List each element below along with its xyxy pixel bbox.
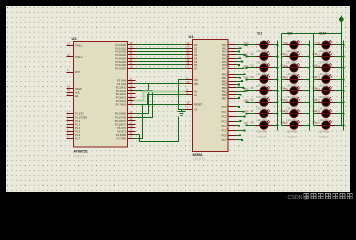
wire LED row 1 col 3 cathode to rail <box>334 44 344 46</box>
LED D15 <box>281 110 303 122</box>
wire LED row 2 col 1 cathode to rail <box>272 56 278 58</box>
svg-text:P1.0/T2: P1.0/T2 <box>75 113 84 116</box>
junction col 3 row 8 <box>343 124 345 126</box>
svg-text:XTAL2: XTAL2 <box>75 56 83 59</box>
wire stub PA0 with net dot <box>236 44 245 46</box>
wire cathode rail column 2 <box>309 41 311 131</box>
wire stub PB1 with net dot <box>236 77 241 79</box>
junction col 3 row 4 <box>343 78 345 80</box>
LED D19 <box>313 64 335 77</box>
svg-text:PA7: PA7 <box>222 67 227 70</box>
junction col 2 row 1 <box>308 44 310 46</box>
wire drop rail col 2 feed row 1 <box>282 44 286 46</box>
wire LED row 6 col 1 feed from net PA5 <box>247 102 256 104</box>
wire stub PC4 with net dot <box>236 125 239 127</box>
junction col 1 row 5 <box>277 90 279 92</box>
wire U1 RD to CS tie <box>179 80 186 110</box>
svg-text:EA: EA <box>75 95 79 98</box>
svg-text:D10: D10 <box>281 54 286 56</box>
svg-text:P3.7/RD: P3.7/RD <box>117 138 127 141</box>
junction col 3 row 5 <box>343 90 345 92</box>
svg-text:CS: CS <box>194 109 198 112</box>
wire stub PC0 with net dot <box>236 106 239 108</box>
svg-text:D9: D9 <box>287 31 292 35</box>
schematic sheet background <box>6 6 350 192</box>
junction col 1 row 4 <box>277 78 279 80</box>
wire LED row 8 col 1 feed from net PA7 <box>247 125 256 127</box>
svg-text:PA1: PA1 <box>244 53 249 56</box>
U1 right pins with pin numbers <box>229 44 236 46</box>
wire LED row 4 col 2 cathode to rail <box>302 79 310 81</box>
svg-text:P3.3/INT1: P3.3/INT1 <box>115 123 127 126</box>
svg-text:CSDN @: CSDN @ <box>288 195 309 200</box>
wire drop rail col 3 feed row 4 <box>314 79 318 81</box>
U1 left pins with pin numbers <box>186 44 193 46</box>
svg-text:P3.4/T0: P3.4/T0 <box>117 127 126 130</box>
wire data bus P0.1 to D1 <box>136 48 186 50</box>
wire power drop rail column 1 <box>281 34 283 126</box>
wire drop rail col 2 feed row 7 <box>282 113 286 115</box>
wire LED row 8 col 1 cathode to rail <box>272 125 278 127</box>
svg-text:PA0: PA0 <box>244 42 249 45</box>
svg-text:P1.3: P1.3 <box>75 123 81 126</box>
wire LED row 3 col 1 feed from net PA2 <box>247 67 256 69</box>
LED D20 <box>313 75 335 88</box>
U2 right pins with pin numbers <box>128 44 136 46</box>
wire stub PB2 with net dot <box>236 81 243 83</box>
svg-text:D17: D17 <box>319 31 326 35</box>
wire LED row 1 col 2 cathode to rail <box>302 44 310 46</box>
wire data bus P0.7 to D7 <box>136 68 186 70</box>
wire drop rail col 3 feed row 1 <box>314 44 318 46</box>
LED D21 <box>313 87 335 100</box>
junction col 2 row 3 <box>308 67 310 69</box>
svg-text:D1: D1 <box>257 31 262 35</box>
svg-text:D22: D22 <box>313 100 318 102</box>
wire stub PC3 with net dot <box>236 121 241 123</box>
wire data bus P0.6 to D6 <box>136 64 186 66</box>
LED D12 <box>281 75 303 88</box>
wire data bus P0.5 to D5 <box>136 61 186 63</box>
wire LED row 5 col 2 cathode to rail <box>302 90 310 92</box>
LED D14 <box>281 98 303 111</box>
junction col 1 row 1 <box>277 44 279 46</box>
wire P3.7 to U1 RESET <box>134 105 186 139</box>
svg-text:P3.2/INT0: P3.2/INT0 <box>115 120 127 123</box>
wire stub PB0 with net dot <box>236 74 245 76</box>
junction col 1 row 3 <box>277 67 279 69</box>
junction col 3 row 3 <box>343 67 345 69</box>
LED D4 <box>251 75 273 88</box>
junction col 3 row 1 <box>343 44 345 46</box>
LED D16 <box>281 121 303 134</box>
wire LED row 2 col 2 cathode to rail <box>302 56 310 58</box>
wire drop rail col 3 feed row 2 <box>314 56 318 58</box>
wire LED row 8 col 2 cathode to rail <box>302 125 310 127</box>
wire LED row 5 col 3 cathode to rail <box>334 90 344 92</box>
wire LED row 3 col 2 cathode to rail <box>302 67 310 69</box>
svg-text:D19: D19 <box>313 65 318 67</box>
wire drop rail col 2 feed row 4 <box>282 79 286 81</box>
svg-text:D15: D15 <box>281 111 286 113</box>
svg-text:P0.7/AD7: P0.7/AD7 <box>115 67 126 70</box>
wire P2.1 to U1 WR <box>134 83 186 85</box>
svg-text:P3.6/WR: P3.6/WR <box>116 134 126 137</box>
svg-text:P1.2: P1.2 <box>75 120 81 123</box>
power symbol VCC top right <box>339 16 343 34</box>
wire stub PA7 with net dot <box>236 68 244 70</box>
wire LED row 5 col 1 cathode to rail <box>272 90 278 92</box>
wire stub PC6 with net dot <box>236 135 241 137</box>
wire stub PA5 with net dot <box>236 61 243 63</box>
junction col 3 row 2 <box>343 56 345 58</box>
svg-text:P1.6: P1.6 <box>75 134 81 137</box>
wire data bus P0.4 to D4 <box>136 58 186 60</box>
LED D1 <box>256 31 273 53</box>
junction col 2 row 5 <box>308 90 310 92</box>
wire LED row 8 col 3 cathode to rail <box>334 125 344 127</box>
wire LED row 1 col 1 feed from net PA0 <box>247 44 256 46</box>
LED D5 <box>251 87 273 100</box>
LED D8 <box>251 121 273 134</box>
wire power drop rail column 2 <box>313 34 315 126</box>
junction col 2 row 8 <box>308 124 310 126</box>
wire stub PB5 with net dot <box>236 91 245 93</box>
wire P3.0 riser <box>134 84 149 114</box>
svg-text:RD: RD <box>194 79 198 82</box>
wire drop rail col 2 feed row 6 <box>282 102 286 104</box>
wire LED row 7 col 1 feed from net PA6 <box>247 113 256 115</box>
wire drop rail col 3 feed row 5 <box>314 90 318 92</box>
svg-text:D12: D12 <box>281 77 286 79</box>
LED D7 <box>251 110 273 122</box>
wire LED row 4 col 3 cathode to rail <box>334 79 344 81</box>
wire LED row 7 col 3 cathode to rail <box>334 113 344 115</box>
wire drop rail col 3 feed row 8 <box>314 125 318 127</box>
wire stub PA1 with net dot <box>236 48 241 50</box>
junction col 1 row 6 <box>277 101 279 103</box>
junction col 1 row 7 <box>277 113 279 115</box>
wire stub PB7 with net dot <box>236 98 239 100</box>
svg-text:D21: D21 <box>313 88 318 90</box>
svg-text:AT89C51: AT89C51 <box>74 149 88 153</box>
svg-text:LED-RED: LED-RED <box>286 130 297 133</box>
svg-text:XTAL1: XTAL1 <box>75 45 83 48</box>
LED D9 <box>286 31 303 53</box>
wire cathode rail column 3 <box>343 41 345 131</box>
svg-text:P3.0/RXD: P3.0/RXD <box>115 113 126 116</box>
wire LED row 5 col 1 feed from net PA4 <box>247 90 256 92</box>
microcontroller U2 body <box>74 41 128 147</box>
svg-text:PA3: PA3 <box>244 76 249 79</box>
wire P2.3 stub <box>134 90 153 92</box>
svg-text:LED-RED: LED-RED <box>256 130 267 133</box>
wire bottom return net <box>140 117 179 142</box>
wire cathode rail column 1 <box>277 41 279 131</box>
wire LED row 1 col 1 cathode to rail <box>272 44 278 46</box>
svg-text:PA4: PA4 <box>244 88 249 91</box>
junction col 2 row 6 <box>308 101 310 103</box>
svg-text:<TEXT>: <TEXT> <box>74 154 87 158</box>
junction power rail <box>340 32 342 34</box>
svg-text:PB7: PB7 <box>222 97 227 100</box>
svg-text:P1.1/T2EX: P1.1/T2EX <box>75 116 87 119</box>
wire stub PB3 with net dot <box>236 84 239 86</box>
wire LED row 7 col 1 cathode to rail <box>272 113 278 115</box>
wire drop rail col 3 feed row 6 <box>314 102 318 104</box>
LED D13 <box>281 87 303 100</box>
wire P3.6 stub <box>134 134 140 136</box>
svg-text:D20: D20 <box>313 77 318 79</box>
wire P2.6 to U1 A0 highlighted <box>134 92 186 101</box>
wire drop rail col 2 feed row 2 <box>282 56 286 58</box>
wire drop rail col 3 feed row 3 <box>314 67 318 69</box>
wire LED row 3 col 3 cathode to rail <box>334 67 344 69</box>
ground symbol at U1 CS <box>178 110 186 116</box>
wire data bus P0.3 to D3 <box>136 54 186 56</box>
wire LED row 7 col 2 cathode to rail <box>302 113 310 115</box>
wire P2.7 to U1 A1 <box>134 95 186 105</box>
svg-text:D24: D24 <box>313 123 318 125</box>
wire LED row 4 col 1 feed from net PA3 <box>247 79 256 81</box>
LED D6 <box>251 98 273 111</box>
wire LED row 4 col 1 cathode to rail <box>272 79 278 81</box>
svg-text:D14: D14 <box>281 100 286 102</box>
svg-text:PA6: PA6 <box>244 111 249 114</box>
svg-text:U2: U2 <box>72 36 78 41</box>
wire drop rail col 2 feed row 3 <box>282 67 286 69</box>
wire LED row 2 col 3 cathode to rail <box>334 56 344 58</box>
svg-text:P1.4: P1.4 <box>75 127 81 130</box>
wire stub PC5 with net dot <box>236 130 245 132</box>
junction col 3 row 6 <box>343 101 345 103</box>
wire drop rail col 3 feed row 7 <box>314 113 318 115</box>
junction col 2 row 4 <box>308 78 310 80</box>
wire LED row 2 col 1 feed from net PA1 <box>247 56 256 58</box>
svg-text:D18: D18 <box>313 54 318 56</box>
svg-text:PA2: PA2 <box>244 65 249 68</box>
wire data bus P0.2 to D2 <box>136 51 186 53</box>
wire LED row 6 col 3 cathode to rail <box>334 102 344 104</box>
svg-text:U1: U1 <box>189 34 195 39</box>
wire LED row 6 col 2 cathode to rail <box>302 102 310 104</box>
svg-text:P3.1/TXD: P3.1/TXD <box>115 116 126 119</box>
svg-text:P3.5/T1: P3.5/T1 <box>117 130 126 133</box>
LED D3 <box>251 64 273 77</box>
peripheral interface U1 body <box>193 40 229 152</box>
wire stub PB6 with net dot <box>236 94 241 96</box>
LED D2 <box>251 52 273 65</box>
LED D24 <box>313 121 335 134</box>
wire LED row 6 col 1 cathode to rail <box>272 102 278 104</box>
svg-text:D13: D13 <box>281 88 286 90</box>
wire power drop rail column 3 <box>341 22 343 126</box>
svg-text:LED-RED: LED-RED <box>318 130 329 133</box>
svg-text:PA7: PA7 <box>244 122 249 125</box>
wire stub PA4 with net dot <box>236 58 241 60</box>
LED D10 <box>281 52 303 65</box>
junction col 2 row 2 <box>308 56 310 58</box>
svg-text:<TEXT>: <TEXT> <box>193 157 206 161</box>
svg-text:WR: WR <box>194 83 198 86</box>
svg-text:D11: D11 <box>281 65 286 67</box>
wire stub PC1 with net dot <box>236 111 244 113</box>
svg-text:RST: RST <box>75 71 80 74</box>
junction col 3 row 7 <box>343 113 345 115</box>
svg-text:P2.7/A15: P2.7/A15 <box>116 103 127 106</box>
wire LED row 3 col 1 cathode to rail <box>272 67 278 69</box>
svg-text:PC7: PC7 <box>222 139 227 142</box>
svg-text:<TEXT>: <TEXT> <box>256 135 267 139</box>
wire stub PC2 with net dot <box>236 116 245 118</box>
junction col 2 row 7 <box>308 113 310 115</box>
svg-text:P1.7: P1.7 <box>75 138 81 141</box>
svg-text:PA5: PA5 <box>244 99 249 102</box>
LED D11 <box>281 64 303 77</box>
wire stub PA6 with net dot <box>236 64 239 66</box>
wire stub PC7 with net dot <box>236 139 243 141</box>
svg-text:D16: D16 <box>281 123 286 125</box>
junction col 1 row 2 <box>277 56 279 58</box>
junction col 1 row 8 <box>277 124 279 126</box>
svg-text:P1.5: P1.5 <box>75 130 81 133</box>
wire P3.1 riser <box>134 91 153 118</box>
svg-text:<TEXT>: <TEXT> <box>318 135 329 139</box>
wire stub PB4 with net dot <box>236 87 244 89</box>
wire power top rail <box>282 33 342 35</box>
wire data bus P0.0 to D0 <box>136 44 186 46</box>
wire stub PA3 with net dot <box>236 54 245 56</box>
wire drop rail col 2 feed row 5 <box>282 90 286 92</box>
LED D17 <box>318 31 335 53</box>
LED D18 <box>313 52 335 65</box>
wire drop rail col 2 feed row 8 <box>282 125 286 127</box>
svg-text:<TEXT>: <TEXT> <box>286 135 297 139</box>
LED D22 <box>313 98 335 111</box>
U2 left pins with pin numbers <box>67 45 74 47</box>
LED D23 <box>313 110 335 122</box>
svg-text:D23: D23 <box>313 111 318 113</box>
svg-text:RESET: RESET <box>194 104 203 107</box>
wire stub PA2 with net dot <box>236 51 239 53</box>
